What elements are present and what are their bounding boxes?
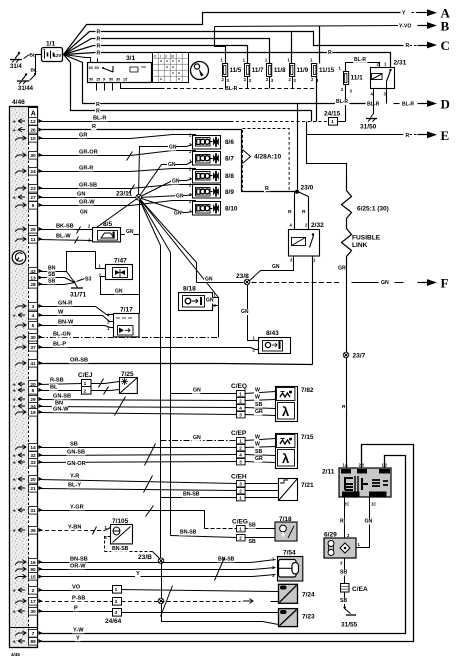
svg-text:Y: Y: [76, 635, 80, 641]
svg-text:R: R: [302, 209, 306, 215]
svg-text:OR-SB: OR-SB: [70, 357, 88, 363]
BL-R dashed bus under fuses: [161, 88, 317, 90]
injector pin-2 feed wires from 4/46: [39, 135, 196, 139]
fuse 11/5: [223, 64, 228, 77]
svg-text:2: 2: [32, 588, 35, 594]
svg-text:14: 14: [30, 445, 36, 451]
svg-text:BN-SB: BN-SB: [70, 556, 88, 562]
svg-text:31/71: 31/71: [70, 292, 87, 299]
wire 2/32 pin1 down to OR-SB wire: [312, 256, 314, 365]
svg-text:BK-SB: BK-SB: [56, 223, 74, 229]
svg-text:15: 15: [30, 575, 36, 581]
svg-text:23/0: 23/0: [301, 185, 314, 192]
svg-text:SB: SB: [255, 402, 262, 408]
svg-text:OUT1: OUT1: [371, 492, 383, 497]
svg-text:GN: GN: [193, 388, 201, 394]
svg-text:R: R: [97, 37, 101, 43]
node 23/7: [343, 352, 349, 358]
svg-text:+: +: [13, 487, 16, 493]
wire GN 23/8 to arrow F: [252, 282, 341, 284]
svg-text:4: 4: [32, 313, 35, 319]
svg-text:3: 3: [32, 304, 35, 310]
svg-text:6: 6: [32, 388, 35, 394]
wire BN-SB pin16 to 7/54: [39, 560, 276, 563]
svg-text:GN: GN: [381, 280, 389, 286]
wire GR down through 23/7 to coil 2/11: [346, 265, 348, 469]
wire 23/8 to relay 2/32 pin 3: [248, 256, 294, 283]
wire R to fuse 11/7: [64, 46, 248, 64]
svg-text:8/18: 8/18: [183, 286, 196, 293]
svg-text:GR: GR: [338, 266, 346, 272]
svg-text:+: +: [13, 529, 16, 535]
wire fuse 11/15 down to 24/15 line: [316, 77, 318, 122]
ground 31/71: [75, 283, 78, 288]
wire GN vertical node to 7/17: [139, 198, 141, 314]
svg-text:λ: λ: [282, 451, 290, 466]
svg-text:21: 21: [30, 486, 36, 492]
wire R battery to arrow D: [64, 55, 366, 104]
svg-text:BL: BL: [30, 53, 36, 59]
svg-text:II: II: [165, 55, 167, 59]
svg-text:2: 2: [115, 599, 118, 605]
svg-text:+: +: [13, 398, 16, 404]
svg-text:+: +: [13, 314, 16, 320]
svg-text:3: 3: [239, 481, 242, 486]
svg-text:2/11: 2/11: [322, 469, 335, 476]
fuse 11/8: [267, 64, 272, 77]
svg-text:4: 4: [239, 452, 242, 457]
fusible link 6/25:1: [342, 177, 352, 265]
svg-text:Y-W: Y-W: [73, 627, 84, 633]
svg-text:Y-R: Y-R: [70, 473, 79, 479]
svg-text:2: 2: [239, 488, 242, 493]
wires Y-R BL-Y BN-SB: [39, 480, 237, 484]
svg-text:GR-OR: GR-OR: [79, 149, 98, 155]
svg-text:23/B: 23/B: [138, 554, 152, 561]
svg-text:+: +: [13, 454, 16, 460]
relay pin 4 to ground 31/50: [373, 89, 375, 114]
svg-text:27: 27: [30, 195, 36, 201]
svg-text:BL: BL: [31, 68, 37, 74]
svg-text:C/EJ: C/EJ: [78, 372, 93, 379]
svg-text:R: R: [96, 102, 100, 108]
svg-text:GR: GR: [79, 132, 87, 138]
svg-text:15: 15: [123, 78, 127, 82]
svg-text:GN: GN: [241, 309, 249, 315]
svg-text:E: E: [441, 128, 450, 143]
svg-text:31/50: 31/50: [360, 124, 377, 131]
svg-text:R: R: [265, 186, 269, 192]
connector 24/64: [113, 586, 122, 594]
wires GN-R W BN-W to 7/17: [39, 307, 114, 315]
svg-text:GN-SB: GN-SB: [67, 449, 85, 455]
svg-text:D: D: [441, 96, 450, 111]
svg-text:2/31: 2/31: [394, 60, 407, 67]
fuse 11/7: [245, 64, 250, 77]
svg-text:2: 2: [239, 398, 242, 403]
svg-text:GN: GN: [126, 229, 134, 235]
wire GN 23/8 down to 8/43: [248, 283, 259, 341]
svg-text:7/21: 7/21: [301, 482, 314, 489]
ground 31/50: [371, 114, 374, 118]
wires SB GN-SB GN-OR: [39, 447, 237, 449]
injector 8/8: [193, 170, 221, 184]
svg-text:0: 0: [154, 55, 156, 59]
svg-text:1: 1: [331, 119, 334, 125]
svg-text:37: 37: [30, 345, 36, 351]
fuse 11/15: [312, 64, 317, 77]
svg-text:4: 4: [239, 405, 242, 410]
svg-text:GN: GN: [168, 162, 176, 168]
svg-text:GN: GN: [272, 264, 280, 270]
svg-text:VO: VO: [72, 584, 81, 590]
svg-text:SB: SB: [255, 449, 262, 455]
wire GN 7/47 pin 2 down: [101, 277, 140, 295]
wire GN from 8/5 to node vertical: [121, 234, 140, 236]
connector 4/46 pin boxes and direction arrows: [29, 118, 38, 126]
svg-text:8/10: 8/10: [225, 206, 238, 213]
svg-text:GN-R: GN-R: [58, 300, 72, 306]
svg-text:7/15: 7/15: [301, 434, 314, 441]
svg-text:7/25: 7/25: [121, 371, 134, 378]
svg-text:2/32: 2/32: [311, 222, 324, 229]
svg-text:7/105: 7/105: [112, 518, 129, 525]
svg-text:8/43: 8/43: [266, 330, 279, 337]
svg-text:31/4: 31/4: [10, 64, 22, 70]
svg-text:GN: GN: [115, 288, 123, 294]
svg-text:11/7: 11/7: [252, 67, 264, 74]
ground 31/4: [24, 55, 30, 59]
svg-text:Y-GR: Y-GR: [70, 504, 84, 510]
fuse stubs to bus: [225, 77, 227, 89]
svg-text:17: 17: [30, 599, 36, 605]
svg-text:2: 2: [84, 389, 87, 395]
svg-text:31/44: 31/44: [18, 86, 34, 92]
svg-text:11/1: 11/1: [351, 75, 364, 82]
svg-text:GN: GN: [174, 210, 182, 216]
svg-text:4/28A:10: 4/28A:10: [254, 153, 281, 160]
svg-text:3: 3: [239, 459, 242, 464]
svg-text:5: 5: [32, 323, 35, 329]
wire GN dash to C/EP pin1: [161, 440, 237, 442]
svg-text:R: R: [92, 124, 96, 130]
svg-text:12V: 12V: [54, 53, 62, 58]
svg-text:GN: GN: [172, 178, 180, 184]
svg-text:C/EG: C/EG: [232, 519, 248, 526]
wire GN fan down-left to 8/5: [97, 198, 139, 228]
svg-text:SB: SB: [249, 539, 256, 545]
column label A: [29, 108, 38, 119]
wires BN SB SB splice S3: [39, 271, 67, 273]
svg-text:20: 20: [30, 477, 36, 483]
svg-text:11/9: 11/9: [297, 67, 309, 74]
svg-text:I: I: [160, 55, 161, 59]
wire R to arrow C: [64, 32, 404, 55]
svg-text:25: 25: [30, 227, 36, 233]
svg-text:GN: GN: [169, 145, 177, 151]
svg-text:BL-GN: BL-GN: [53, 331, 71, 337]
ignition key position table: [153, 53, 189, 83]
svg-text:1: 1: [239, 526, 242, 531]
6/29 pin 3 to ground: [344, 559, 346, 584]
svg-text:12: 12: [30, 119, 36, 125]
fuse 11/9: [290, 64, 295, 77]
wire Y-BN dashed: [39, 530, 105, 532]
svg-text:31/55: 31/55: [341, 622, 358, 629]
svg-text:8/8: 8/8: [225, 173, 234, 180]
svg-text:19: 19: [30, 410, 36, 416]
svg-text:+: +: [13, 405, 16, 411]
injector 8/6: [193, 136, 221, 150]
svg-text:1C: 1C: [371, 502, 376, 507]
svg-text:7/54: 7/54: [283, 550, 296, 557]
svg-text:W: W: [255, 395, 260, 401]
svg-text:BN-SB: BN-SB: [218, 556, 235, 562]
svg-text:2: 2: [239, 535, 242, 540]
svg-text:F: F: [441, 275, 449, 290]
wire R to arrow E: [307, 134, 404, 136]
wire BL-R down from battery to 24/15: [64, 55, 312, 122]
svg-text:R-SB: R-SB: [50, 377, 64, 383]
svg-text:W: W: [255, 435, 260, 441]
svg-text:89: 89: [30, 639, 36, 645]
svg-text:GN: GN: [206, 298, 214, 304]
svg-text:30: 30: [30, 153, 36, 159]
wire GN fan to 8/18: [139, 198, 219, 298]
svg-text:10: 10: [30, 136, 36, 142]
svg-text:BN-SB: BN-SB: [180, 530, 197, 536]
svg-text:36: 36: [30, 528, 36, 534]
svg-text:+: +: [13, 478, 16, 484]
svg-text:9: 9: [32, 203, 35, 209]
svg-text:C/EH: C/EH: [231, 474, 247, 481]
svg-text:11/8: 11/8: [274, 67, 286, 74]
wire to fuse 11/15: [319, 26, 321, 64]
svg-text:BL-P: BL-P: [53, 341, 66, 347]
svg-text:W: W: [58, 309, 64, 315]
svg-text:3: 3: [239, 412, 242, 417]
wire P: [39, 611, 113, 613]
GN wires node to injector pin 1: [139, 145, 193, 198]
svg-text:W: W: [255, 442, 260, 448]
svg-text:GN: GN: [193, 435, 201, 441]
svg-text:C/EQ: C/EQ: [231, 383, 247, 390]
oxygen sensor 7/82: [276, 387, 298, 422]
svg-text:FUSIBLE: FUSIBLE: [352, 235, 381, 242]
svg-text:23: 23: [30, 186, 36, 192]
svg-text:11/5: 11/5: [230, 67, 242, 74]
svg-text:BN-SB: BN-SB: [112, 546, 129, 552]
ground 31/44: [22, 75, 26, 80]
svg-text:1: 1: [239, 391, 242, 396]
coil feed wires 2B 1B from bottom loops: [39, 445, 414, 642]
svg-text:+: +: [13, 389, 16, 395]
fuse 11/1: [344, 72, 349, 85]
svg-text:BN-SB: BN-SB: [183, 491, 200, 497]
svg-text:8/9: 8/9: [225, 189, 234, 196]
svg-text:III: III: [171, 55, 174, 59]
wire OR-W pin 90: [39, 568, 276, 570]
svg-text:SB: SB: [340, 598, 347, 604]
svg-text:Y: Y: [402, 11, 406, 17]
svg-text:OR-W: OR-W: [70, 563, 86, 569]
svg-text:SB: SB: [48, 272, 55, 278]
svg-text:30: 30: [30, 609, 36, 615]
svg-text:R: R: [97, 44, 101, 50]
svg-text:1/1: 1/1: [46, 41, 55, 48]
svg-text:BL-R: BL-R: [354, 57, 366, 63]
svg-text:7/17: 7/17: [120, 307, 133, 314]
svg-text:BL-W: BL-W: [56, 233, 71, 239]
svg-text:R: R: [406, 43, 410, 49]
svg-text:C/EP: C/EP: [231, 430, 247, 437]
wire P-SB dashed: [39, 601, 113, 603]
svg-text:3: 3: [115, 610, 118, 616]
ignition key symbol: [191, 62, 209, 80]
svg-text:BL-Y: BL-Y: [68, 482, 81, 488]
svg-text:SB: SB: [48, 278, 55, 284]
svg-text:33: 33: [30, 460, 36, 466]
ground 31/55: [344, 606, 346, 609]
wire to fuse 11/9: [291, 32, 293, 64]
svg-text:+: +: [13, 589, 16, 595]
solenoid valve 7/24: [279, 584, 298, 603]
svg-text:BL-R: BL-R: [93, 115, 106, 121]
svg-text:C: C: [441, 38, 450, 53]
svg-text:LINK: LINK: [352, 242, 368, 249]
svg-text:BL-R: BL-R: [336, 99, 348, 105]
svg-text:30: 30: [89, 66, 93, 70]
wire to fusible link: [307, 122, 347, 177]
wire GN fan to C/EQ then C/EG: [139, 198, 171, 536]
wire GN fan to node 23/8: [139, 198, 197, 283]
svg-text:λ: λ: [282, 404, 290, 419]
wire battery left BL: [35, 54, 42, 56]
svg-text:SB: SB: [340, 570, 347, 576]
wire BL-R fuse 11/1 to relay 2/31: [346, 63, 380, 72]
svg-text:BL-R: BL-R: [402, 102, 414, 108]
svg-text:R: R: [406, 133, 410, 139]
wire 7/105 pin2 to 23/B: [105, 537, 111, 552]
svg-text:R: R: [96, 108, 100, 114]
wire BL down to 31/44: [35, 55, 37, 74]
svg-text:OUT2: OUT2: [343, 492, 355, 497]
svg-text:GN-SB: GN-SB: [53, 393, 71, 399]
svg-text:8/6: 8/6: [225, 139, 234, 146]
svg-text:1A: 1A: [343, 463, 348, 468]
svg-text:4/46: 4/46: [12, 99, 25, 106]
svg-text:R: R: [340, 519, 344, 525]
svg-text:R: R: [328, 50, 332, 56]
svg-text:GN: GN: [77, 191, 85, 197]
injector 8/9: [193, 185, 221, 199]
svg-text:26: 26: [30, 128, 36, 134]
svg-text:31: 31: [30, 508, 36, 514]
svg-text:SB: SB: [249, 523, 256, 529]
svg-text:BL-R: BL-R: [225, 86, 238, 92]
solenoid valve 7/23: [279, 609, 298, 627]
wires BK-SB / BL-W to 8/5: [39, 229, 93, 231]
svg-text:24/15: 24/15: [324, 111, 341, 118]
svg-text:24: 24: [30, 169, 36, 175]
relay output pin 3 to arrow D line: [386, 89, 388, 104]
svg-text:Y: Y: [136, 571, 140, 577]
svg-text:7/47: 7/47: [114, 258, 127, 265]
svg-text:28: 28: [30, 282, 36, 288]
coil outputs down: [344, 498, 346, 539]
svg-text:11: 11: [30, 237, 35, 243]
svg-text:GN-W: GN-W: [53, 406, 69, 412]
wire R to fuse 11/8: [64, 39, 270, 64]
svg-text:GR: GR: [255, 456, 263, 462]
dashed boundary 4/28A:10: [243, 129, 290, 192]
svg-text:4/46: 4/46: [11, 652, 20, 657]
wires GN-SB BN GN-W: [39, 400, 237, 401]
svg-text:+: +: [13, 128, 16, 134]
svg-text:BL: BL: [50, 385, 58, 391]
svg-text:SB: SB: [70, 441, 78, 447]
wire GN pin 27 into node: [39, 197, 139, 199]
svg-text:8/7: 8/7: [225, 156, 234, 163]
svg-text:50: 50: [109, 78, 113, 82]
svg-text:BN: BN: [48, 265, 56, 271]
svg-text:BN-W: BN-W: [58, 319, 74, 325]
wire BN-SB to C/EG pin2: [171, 536, 237, 538]
wire GN to C/EQ pin1: [171, 393, 237, 395]
svg-text:INJ: INJ: [380, 470, 386, 474]
svg-text:GR-R: GR-R: [79, 165, 93, 171]
wire BL-R pin 12 to connector 24/15: [39, 121, 231, 123]
svg-text:P-SB: P-SB: [72, 595, 85, 601]
svg-text:R: R: [342, 404, 346, 410]
svg-text:1: 1: [115, 587, 118, 593]
svg-text:GN: GN: [80, 210, 88, 216]
svg-text:R: R: [288, 209, 292, 215]
svg-text:7/23: 7/23: [302, 614, 315, 621]
svg-text:7: 7: [32, 631, 35, 637]
svg-text:GR-SB: GR-SB: [79, 182, 97, 188]
svg-text:7/82: 7/82: [301, 387, 314, 394]
wire Y-VO to arrow B with branch to fuse 11/5: [215, 26, 400, 27]
svg-text:+: +: [13, 120, 16, 126]
svg-text:6/25:1 (30): 6/25:1 (30): [357, 206, 389, 213]
svg-text:2: 2: [239, 445, 242, 450]
wire to ignition switch 30: [64, 55, 91, 63]
svg-text:GN: GN: [176, 194, 184, 200]
svg-text:30: 30: [95, 66, 99, 70]
svg-text:1: 1: [239, 438, 242, 443]
wire OR-SB pin 41: [39, 364, 313, 365]
shield symbol circled hook: [12, 251, 26, 265]
wires 23/0 to 2/32: [294, 192, 296, 230]
svg-text:30: 30: [116, 78, 120, 82]
svg-text:23/7: 23/7: [353, 353, 366, 360]
wire splice marks: [115, 397, 126, 416]
svg-text:+: +: [13, 640, 16, 646]
svg-text:3/1: 3/1: [126, 55, 135, 62]
wire Y pin 15: [39, 575, 276, 577]
switch bottom stubs: [96, 83, 98, 91]
wire BL-GN pin 30: [39, 337, 219, 339]
svg-text:Y-VO: Y-VO: [399, 24, 411, 30]
svg-text:+: +: [13, 196, 16, 202]
svg-text:Y-BN: Y-BN: [68, 524, 81, 530]
svg-text:23/8: 23/8: [236, 273, 249, 280]
svg-text:+: +: [13, 610, 16, 616]
wire R down from D-line to 23/0: [297, 104, 299, 192]
svg-text:R: R: [97, 29, 101, 35]
wire Y-GR to C/EG pin1: [39, 511, 205, 529]
